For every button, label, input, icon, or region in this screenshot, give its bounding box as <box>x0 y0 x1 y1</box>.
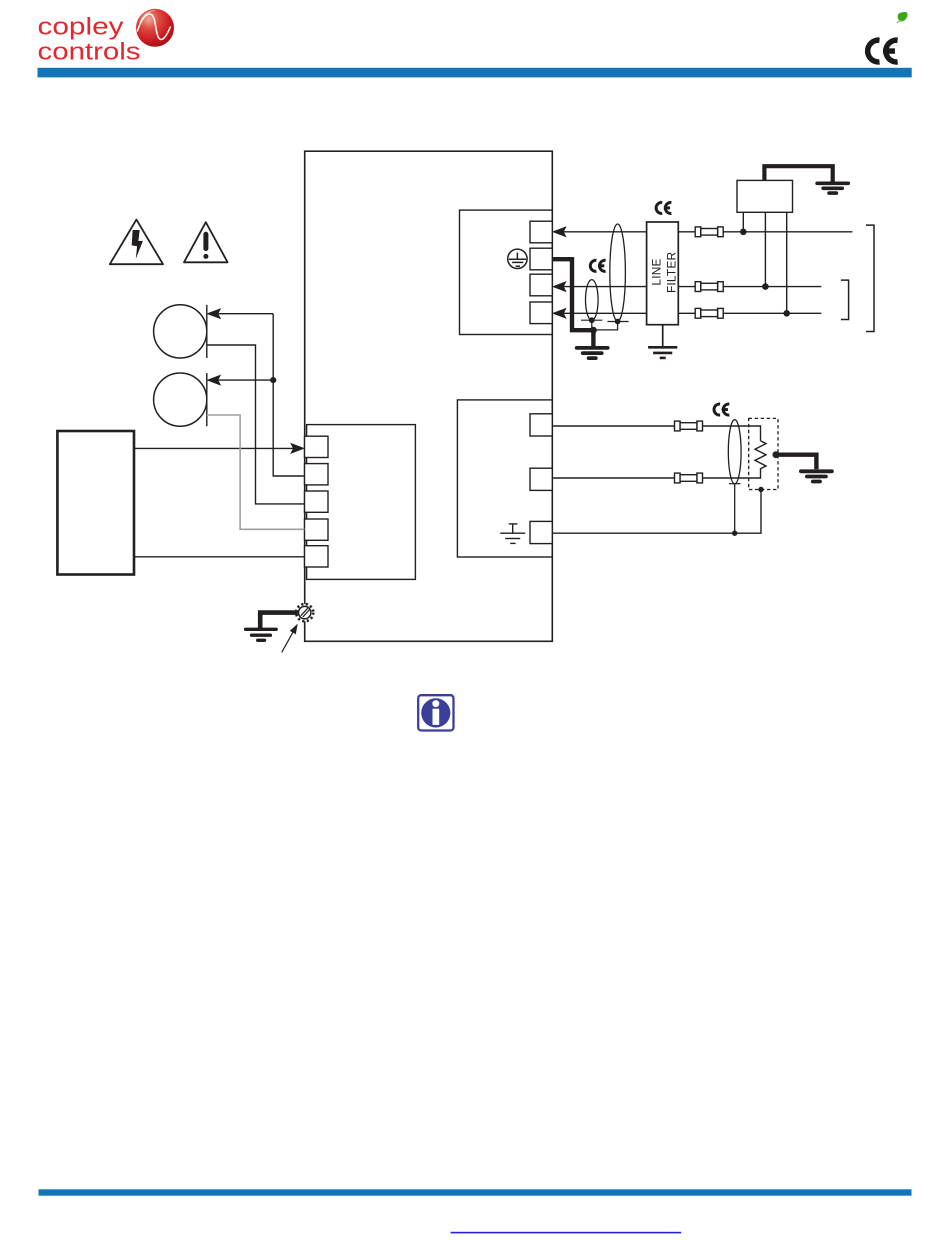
fuse F1 <box>695 227 723 237</box>
chassis ground symbol in J2 <box>500 524 525 544</box>
wire transformer tap L2 <box>762 212 769 290</box>
green leaf <box>897 12 908 23</box>
node shield drain <box>732 531 737 536</box>
CE mark top right <box>865 37 898 64</box>
junction node feedback <box>270 377 276 383</box>
earth ground transformer <box>817 183 848 193</box>
logo wordmark copley controls <box>38 14 141 66</box>
wire J2-1 to regen resistor <box>552 426 760 441</box>
wire controller to pin J3-5 <box>134 556 305 558</box>
pin J2-3 <box>530 521 552 543</box>
wire motor feedback to J3-2 with arrows <box>208 309 304 476</box>
chassis ground screw <box>296 604 313 621</box>
resistor R1 zigzag <box>755 441 766 471</box>
wire transformer tap L1 <box>740 212 747 235</box>
pointer arrow to ground screw <box>282 624 298 653</box>
AC cable shield large <box>596 224 629 330</box>
fuse F2 <box>695 282 723 292</box>
DC power connector J2 box <box>457 400 552 557</box>
protective earth symbol <box>508 249 527 268</box>
motor M2 circle <box>154 373 207 426</box>
pin J2-2 <box>530 468 552 490</box>
controller box <box>57 431 134 575</box>
footer hyperlink underline <box>451 1232 682 1234</box>
wire J2-2 to regen resistor <box>552 471 760 479</box>
CE mark regen cable <box>713 403 730 417</box>
fuse F5 <box>675 473 703 483</box>
regen cable shield <box>728 420 741 534</box>
line filter label <box>650 252 679 293</box>
info note icon <box>418 695 453 730</box>
AC mains connector J1 box <box>460 210 553 334</box>
footer blue bar <box>39 1189 912 1195</box>
fuse F4 <box>675 421 703 431</box>
thick ground wire from screw <box>260 613 298 629</box>
svg-text:controls: controls <box>38 39 141 66</box>
transformer box <box>737 180 793 212</box>
thick earth wire regen <box>776 455 817 470</box>
svg-text:LINE: LINE <box>650 258 664 285</box>
line filter earth ground <box>648 325 677 358</box>
line filter FL1 box <box>647 222 679 325</box>
pin J1-2 <box>530 248 552 270</box>
header blue bar <box>38 68 912 78</box>
bracket three phase <box>866 225 874 331</box>
signal connector J3 box <box>307 425 416 580</box>
AC line L1 wire <box>554 228 853 237</box>
pin J2-1 <box>530 414 552 436</box>
AC line L2 wire <box>554 282 822 291</box>
pin J1-3 <box>530 274 552 296</box>
node regen earth <box>773 451 780 458</box>
pin J3-1 <box>305 436 329 457</box>
svg-text:FILTER: FILTER <box>665 252 679 293</box>
pin J3-4 <box>305 519 329 540</box>
logo red sphere <box>136 9 174 47</box>
warning triangle general <box>184 222 228 262</box>
CE mark motor cable <box>589 259 606 273</box>
pin J3-5 <box>305 546 329 567</box>
pin J3-2 <box>305 464 329 485</box>
drive amplifier outline <box>305 151 553 641</box>
fuse F3 <box>695 308 723 318</box>
motor M1 circle <box>154 305 207 358</box>
wire transformer tap L3 <box>783 212 790 316</box>
pin J1-4 <box>530 302 552 324</box>
earth ground regen <box>801 471 832 481</box>
CE mark line filter <box>655 201 672 215</box>
warning triangle high voltage <box>110 220 163 265</box>
thick protective earth wire from J1-2 <box>552 259 592 330</box>
pin J1-1 <box>530 221 552 243</box>
gray wire motor M2 to pin J3-4 <box>207 415 305 529</box>
earth ground at screw wire <box>246 629 277 640</box>
svg-text:copley: copley <box>38 14 124 41</box>
node regen box bottom <box>758 487 763 492</box>
node earth junction <box>590 327 597 347</box>
bracket single phase <box>841 280 849 319</box>
wire J2-3 to regen box <box>552 490 761 534</box>
regen resistor assembly dashed box <box>749 418 778 489</box>
earth ground motor shield <box>577 348 608 358</box>
wire motor M1 to pin J3-3 <box>207 345 305 504</box>
motor cable shield small <box>581 280 602 329</box>
AC line L3 wire <box>554 309 822 318</box>
pin J3-3 <box>305 491 329 512</box>
wire controller to pin J3-1 with arrow <box>134 444 303 453</box>
thick earth wire transformer <box>764 166 832 181</box>
